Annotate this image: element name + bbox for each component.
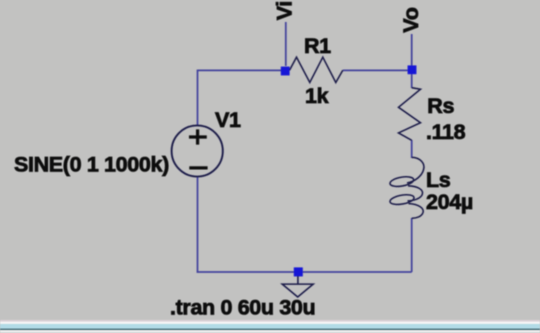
ground stub — [297, 276, 299, 284]
svg-text:204µ: 204µ — [426, 190, 473, 214]
svg-text:.tran 0 60u 30u: .tran 0 60u 30u — [170, 296, 315, 320]
wire: Rs bottom to Ls top — [411, 140, 413, 158]
wire: bottom rail horizontal — [197, 271, 412, 273]
svg-text:V1: V1 — [215, 108, 241, 132]
wire: R1 right lead to node Vo — [343, 69, 412, 71]
inductor Ls — [389, 157, 424, 218]
resistor R1 — [290, 57, 343, 82]
node Vo junction — [408, 65, 417, 74]
wire: node Vi stub up to label — [285, 22, 287, 66]
svg-text:Ls: Ls — [426, 168, 451, 192]
svg-text:Vi: Vi — [272, 1, 296, 20]
wire: node Vo stub up to label — [411, 34, 413, 66]
ground junction — [294, 267, 303, 276]
svg-text:Rs: Rs — [427, 94, 454, 118]
svg-text:.118: .118 — [426, 120, 466, 144]
status bar bands at bottom — [0, 320, 540, 333]
svg-text:R1: R1 — [304, 34, 331, 58]
wire: V1 bottom down to bottom rail — [197, 177, 199, 273]
V1 plus sign — [189, 129, 207, 144]
svg-text:SINE(0 1 1000k): SINE(0 1 1000k) — [14, 153, 169, 177]
V1 minus sign — [189, 166, 207, 169]
wire: top left horizontal (V1 top to node Vi) — [198, 69, 282, 71]
svg-text:1k: 1k — [305, 84, 329, 108]
voltage source V1 — [172, 125, 223, 176]
node Vi junction — [281, 67, 290, 76]
svg-text:Vo: Vo — [399, 7, 423, 32]
wire: left vertical (top corner down to V1 top) — [197, 70, 199, 126]
ground — [282, 284, 313, 297]
wire: right vertical below inductor — [411, 218, 413, 272]
resistor Rs — [399, 88, 421, 141]
wire: Vo node to Rs top — [411, 73, 413, 88]
